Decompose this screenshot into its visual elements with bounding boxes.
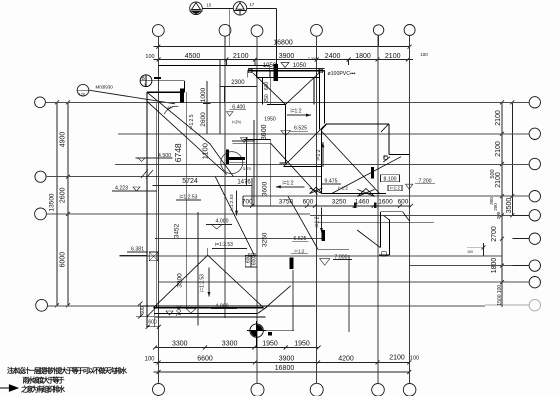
600 boxes near pyramid	[245, 255, 257, 267]
svg-text:i=1:2: i=1:2	[295, 248, 305, 253]
vertical grid lines	[157, 36, 159, 383]
svg-text:700: 700	[176, 305, 183, 316]
svg-text:2700: 2700	[491, 226, 498, 242]
svg-text:6.400: 6.400	[232, 105, 245, 111]
svg-text:2100: 2100	[495, 110, 502, 126]
svg-text:7.300: 7.300	[308, 57, 318, 61]
valley D1 middle-right	[271, 143, 318, 194]
svg-text:1500: 1500	[497, 294, 503, 305]
right wing eave	[327, 123, 389, 125]
svg-text:6748: 6748	[173, 143, 183, 162]
svg-text:4500: 4500	[185, 53, 201, 60]
svg-text:2600: 2600	[200, 112, 207, 127]
svg-text:6.525: 6.525	[294, 125, 307, 131]
svg-text:6.525: 6.525	[294, 236, 307, 242]
top edge of left wing	[158, 65, 269, 67]
svg-text:3500: 3500	[506, 198, 513, 214]
top-left eave corner	[147, 91, 185, 93]
svg-text:600: 600	[264, 82, 270, 91]
bottom-left parapet steps	[136, 302, 161, 329]
svg-text:3452: 3452	[174, 223, 181, 238]
secondary valley (parallel)	[147, 101, 227, 174]
stair arc	[221, 152, 243, 174]
svg-text:3300: 3300	[177, 273, 184, 288]
svg-text:3250: 3250	[261, 232, 268, 247]
right leader stubs	[485, 215, 529, 305]
dim ticks	[156, 45, 411, 62]
svg-text:4900: 4900	[60, 132, 67, 148]
svg-text:4200: 4200	[338, 355, 354, 362]
right wing crossing diagonals	[321, 131, 379, 194]
central dim row texts	[242, 198, 409, 205]
8.100 box	[381, 175, 400, 182]
svg-text:600: 600	[303, 198, 314, 205]
svg-text:1100: 1100	[201, 143, 210, 159]
svg-text:5.70: 5.70	[243, 166, 252, 171]
svg-text:9.475: 9.475	[325, 179, 338, 185]
svg-text:i=1:2.53: i=1:2.53	[215, 242, 233, 248]
svg-text:6.381: 6.381	[131, 247, 144, 253]
1000/2600 vertical dim	[206, 81, 208, 134]
svg-text:17: 17	[250, 2, 255, 7]
svg-text:4.000: 4.000	[216, 303, 229, 309]
svg-text:注本设计一层提排外提大于等于可以不做天沟排水: 注本设计一层提排外提大于等于可以不做天沟排水	[7, 366, 127, 375]
marker labels	[207, 2, 255, 8]
detail marker symbol 1	[190, 2, 203, 15]
detail marker symbol 2	[233, 2, 246, 15]
M03 window symbol	[77, 84, 175, 103]
svg-text:100: 100	[467, 250, 473, 254]
svg-text:2400: 2400	[325, 53, 341, 60]
svg-text:3750: 3750	[279, 198, 294, 205]
svg-text:100: 100	[144, 357, 155, 363]
svg-text:100: 100	[420, 52, 428, 57]
marker connector wires	[202, 7, 233, 9]
svg-text:ø100PVC▪▪▪: ø100PVC▪▪▪	[328, 71, 356, 77]
svg-text:600: 600	[148, 319, 157, 325]
svg-text:100: 100	[410, 356, 419, 362]
overall 16800 dim line	[154, 46, 410, 48]
5724/1476 dim line	[152, 184, 252, 186]
annotation arrow	[0, 385, 18, 391]
svg-text:i=1:2: i=1:2	[291, 109, 302, 115]
2300 dim	[220, 86, 257, 88]
4.000 top level mark	[212, 225, 223, 230]
svg-text:3300: 3300	[172, 341, 188, 348]
svg-text:2100: 2100	[233, 53, 249, 60]
bottom dimension texts	[144, 341, 419, 373]
svg-text:2100: 2100	[389, 355, 405, 362]
wall niche box	[149, 252, 158, 261]
valley to bottom pyramid	[215, 177, 254, 256]
right dimension texts (rotated)	[489, 110, 513, 305]
svg-text:200: 200	[493, 203, 498, 211]
svg-text:i=1:2.5: i=1:2.5	[189, 114, 195, 129]
svg-text:1000: 1000	[200, 87, 207, 102]
svg-text:45°: 45°	[167, 105, 173, 110]
svg-text:雨水坡度大于等于: 雨水坡度大于等于	[23, 375, 65, 384]
bottom pyramid	[154, 255, 208, 308]
svg-text:250: 250	[264, 94, 270, 103]
central dim row 700/3750/...	[243, 205, 411, 207]
svg-text:之意为有组织排水: 之意为有组织排水	[21, 385, 65, 394]
svg-text:600: 600	[252, 257, 258, 266]
right lower corner diagonal	[357, 230, 380, 248]
svg-text:8.100: 8.100	[384, 177, 397, 183]
svg-text:1600: 1600	[378, 198, 393, 205]
porch hip diagonals	[253, 73, 286, 104]
svg-text:600: 600	[140, 306, 146, 315]
svg-text:6600: 6600	[197, 355, 213, 362]
wall left	[186, 92, 188, 308]
svg-text:3900: 3900	[279, 53, 295, 60]
svg-text:i=1:2: i=1:2	[338, 186, 348, 191]
svg-text:i=1:2.53: i=1:2.53	[180, 195, 198, 201]
upper-middle eave lines	[233, 142, 271, 144]
svg-text:M03l930: M03l930	[96, 85, 114, 90]
svg-text:1050: 1050	[263, 63, 277, 69]
valley D2 lower-right	[288, 196, 318, 249]
svg-text:2100: 2100	[495, 172, 502, 188]
svg-text:i=1:2: i=1:2	[315, 216, 321, 227]
svg-text:10: 10	[207, 3, 212, 8]
svg-text:1950: 1950	[264, 117, 276, 123]
svg-text:1800: 1800	[355, 53, 371, 60]
svg-text:3600: 3600	[261, 124, 268, 140]
top dimension texts	[145, 40, 428, 61]
svg-text:i=1:2: i=1:2	[390, 186, 400, 191]
svg-text:2100: 2100	[385, 53, 401, 60]
svg-text:i=1:2: i=1:2	[283, 181, 294, 187]
svg-text:3300: 3300	[222, 341, 238, 348]
svg-text:i=2%: i=2%	[232, 120, 242, 125]
svg-text:3900: 3900	[279, 355, 295, 362]
svg-text:16800: 16800	[273, 40, 293, 47]
big valley from top-left corner	[147, 92, 234, 177]
left dimension texts (rotated)	[49, 132, 67, 268]
B leader line	[151, 80, 184, 82]
wall break zigzag	[141, 170, 153, 179]
svg-text:4.500: 4.500	[158, 153, 171, 159]
svg-text:6000: 6000	[60, 252, 67, 268]
svg-text:1050: 1050	[293, 63, 307, 69]
svg-text:1950: 1950	[262, 341, 278, 348]
misc level triangles	[232, 140, 255, 142]
svg-text:13500: 13500	[49, 193, 56, 211]
1050/1050 porch dim	[248, 67, 324, 69]
i=1:2 arrows	[287, 114, 311, 116]
svg-text:i=1:2: i=1:2	[316, 149, 322, 160]
svg-text:1476: 1476	[237, 180, 251, 186]
svg-text:1950: 1950	[294, 341, 310, 348]
svg-text:4.223: 4.223	[115, 186, 128, 192]
svg-text:2300: 2300	[231, 80, 245, 86]
svg-text:3250: 3250	[332, 198, 347, 205]
bottom edges of left wing	[143, 305, 315, 307]
svg-text:5724: 5724	[182, 178, 198, 185]
corner marker squares	[248, 69, 252, 73]
svg-text:100: 100	[145, 54, 154, 60]
svg-text:700: 700	[242, 198, 253, 205]
svg-text:2100: 2100	[495, 141, 502, 157]
4.000 bottom level mark	[186, 309, 196, 314]
level line juts on left wall	[136, 157, 173, 159]
porch top	[248, 70, 325, 72]
svg-text:500: 500	[490, 169, 496, 178]
svg-text:120: 120	[79, 92, 86, 97]
svg-text:3600: 3600	[261, 181, 268, 196]
rotated interior texts	[140, 82, 322, 317]
svg-text:i=1:2.53: i=1:2.53	[229, 194, 234, 211]
svg-text:16800: 16800	[275, 365, 295, 372]
svg-text:7.200: 7.200	[419, 179, 432, 185]
valley up-right from pyramid corner	[264, 286, 291, 310]
svg-text:100: 100	[497, 285, 503, 294]
short boundary stubs below segment line	[225, 60, 227, 66]
svg-text:4.000: 4.000	[216, 219, 229, 225]
svg-text:2600: 2600	[60, 187, 67, 203]
svg-text:7.000: 7.000	[335, 254, 348, 260]
svg-text:600: 600	[398, 198, 409, 205]
svg-text:1460: 1460	[355, 198, 370, 205]
small gable marks	[310, 187, 323, 193]
svg-text:i=1:2.53: i=1:2.53	[200, 274, 206, 292]
segment dim line	[154, 59, 414, 61]
right wing lower block	[381, 211, 403, 213]
